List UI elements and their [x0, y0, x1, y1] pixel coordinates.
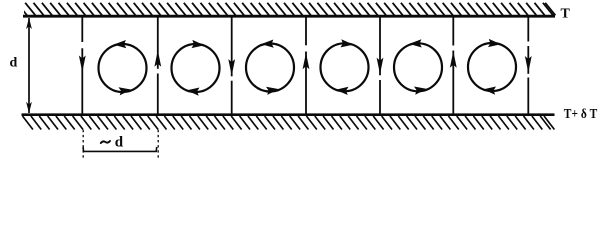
convection roll 5 (ccw) [394, 39, 442, 94]
dashed extension line right [157, 130, 159, 158]
svg-text:T+ δ T: T+ δ T [564, 107, 598, 122]
cell boundary wire x=380 with down flow arrow [379, 18, 381, 76]
svg-text:d: d [10, 56, 18, 71]
top plate [23, 15, 555, 18]
cell boundary wire x=232 with down flow arrow [231, 18, 233, 77]
~d dimension line with end ticks [83, 147, 157, 152]
convection roll 4 (cw) [321, 39, 369, 95]
dimension line d (plate separation) [28, 18, 30, 113]
dashed extension line left [82, 130, 84, 158]
cell boundary wire x=306 with up flow arrow [305, 18, 307, 46]
cell boundary wire x=453 with up flow arrow [452, 18, 454, 46]
svg-text:T: T [561, 6, 571, 21]
svg-text:d: d [115, 135, 124, 151]
cell boundary wire x=82 with down flow arrow [81, 18, 83, 43]
top plate hatching [17, 3, 556, 16]
label ~ d : tilde drawn as path [101, 141, 110, 143]
convection roll 3 (ccw) [246, 40, 294, 95]
convection roll 6 (cw) [468, 39, 516, 95]
cell boundary wire x=158 with up flow arrow [157, 18, 159, 69]
convection roll 1 (ccw) [99, 40, 147, 95]
bottom plate hatching [23, 116, 555, 130]
cell boundary wire x=528 with down flow arrow [527, 18, 529, 42]
bottom plate [22, 113, 555, 116]
convection roll 2 (cw) [172, 40, 220, 96]
